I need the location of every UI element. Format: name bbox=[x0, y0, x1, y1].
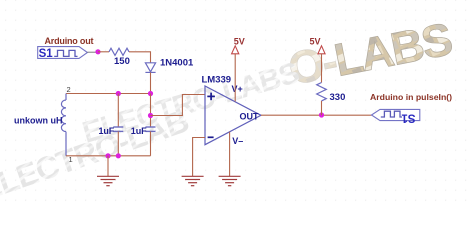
svg-text:unkown uH: unkown uH bbox=[14, 116, 63, 126]
junction dot cap1 top bbox=[116, 91, 121, 96]
opamp plus bbox=[207, 93, 215, 101]
resistor R1 150 bbox=[109, 48, 129, 55]
svg-text:5V: 5V bbox=[310, 37, 321, 47]
ground G3 bbox=[219, 176, 241, 185]
watermark (decorative) bbox=[0, 13, 455, 208]
capacitor C1 1uF bbox=[113, 94, 123, 156]
junction dot out bbox=[319, 112, 324, 117]
svg-text:2: 2 bbox=[67, 85, 71, 94]
svg-text:V–: V– bbox=[232, 136, 243, 146]
svg-text:1N4001: 1N4001 bbox=[160, 58, 194, 69]
wire opamp out rail bbox=[261, 114, 372, 116]
svg-text:V+: V+ bbox=[232, 84, 243, 94]
wire minus input to gnd bbox=[193, 138, 205, 177]
op-amp U1 LM339 bbox=[205, 86, 261, 145]
svg-text:1uF: 1uF bbox=[131, 126, 147, 136]
wire R2 to rail bbox=[321, 101, 323, 115]
svg-text:LM339: LM339 bbox=[202, 75, 232, 86]
svg-text:5V: 5V bbox=[234, 37, 245, 47]
opamp minus bbox=[208, 136, 214, 138]
svg-text:1uF: 1uF bbox=[99, 126, 115, 136]
svg-text:S1: S1 bbox=[401, 112, 416, 124]
wire V- to gnd bbox=[229, 132, 231, 176]
diode D1 1N4001 bbox=[145, 63, 155, 73]
wire tap to plus input bbox=[151, 95, 206, 116]
svg-text:S1: S1 bbox=[39, 48, 54, 60]
svg-text:150: 150 bbox=[114, 56, 130, 67]
port S1 Arduino in bbox=[372, 109, 420, 123]
power 5V #1 bbox=[232, 37, 245, 102]
capacitor C2 1uF bbox=[146, 94, 156, 156]
port S1 Arduino out bbox=[38, 47, 98, 60]
svg-text:Arduino in pulseIn(): Arduino in pulseIn() bbox=[370, 92, 452, 102]
wire gnd lead bbox=[107, 156, 109, 176]
junction dot cap1 bottom bbox=[116, 153, 121, 158]
inductor L1 bbox=[61, 94, 66, 156]
svg-text:330: 330 bbox=[330, 92, 346, 103]
junction dot tap to opamp bbox=[148, 113, 153, 118]
wire diode to node rail bbox=[150, 72, 152, 93]
power 5V #2 bbox=[310, 37, 326, 83]
junction dot node top bbox=[148, 91, 153, 96]
wire R1 to diode corner bbox=[129, 52, 151, 63]
junction dot A bbox=[95, 49, 100, 54]
ground G2 bbox=[182, 176, 204, 185]
svg-text:Arduino out: Arduino out bbox=[45, 36, 94, 46]
wire S1 to R1 bbox=[98, 51, 109, 53]
junction dot gnd tap bbox=[105, 153, 110, 158]
wire bottom rail bbox=[66, 155, 151, 157]
wire top rail bbox=[66, 93, 151, 95]
resistor R2 330 bbox=[317, 83, 327, 101]
ground G1 bbox=[97, 176, 119, 185]
svg-text:OUT: OUT bbox=[240, 111, 260, 121]
